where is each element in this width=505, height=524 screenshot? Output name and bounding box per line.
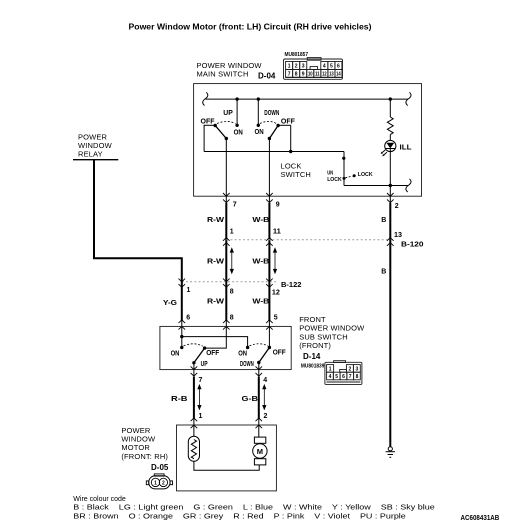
wire: pin 2 to motor top: [258, 425, 260, 437]
power window main switch box D-04: [194, 84, 422, 197]
svg-text:1: 1: [187, 287, 191, 294]
wire: bus to DOWN ON contact: [257, 99, 259, 125]
node: ON contact left: [180, 346, 183, 349]
svg-text:Y-G: Y-G: [163, 300, 178, 307]
svg-text:7: 7: [288, 72, 291, 78]
pin numbers of D-05 icon: [154, 480, 165, 486]
node: bus junction for UP switch: [235, 97, 238, 100]
svg-text:2: 2: [395, 203, 399, 210]
svg-text:8: 8: [230, 289, 234, 296]
wire: pivot to pin 4 exit: [258, 363, 260, 370]
wire: pivot of DOWN switch down to pin 9: [268, 139, 270, 197]
svg-text:4: 4: [323, 64, 326, 70]
svg-text:8: 8: [230, 315, 234, 322]
svg-text:9: 9: [276, 202, 280, 209]
svg-text:OFF: OFF: [273, 349, 287, 356]
illumination rays: [382, 150, 385, 153]
svg-text:B-120: B-120: [401, 242, 424, 249]
connector B-120 chevrons on W-B: [266, 238, 273, 246]
svg-text:2: 2: [162, 480, 165, 486]
svg-text:6: 6: [186, 315, 190, 322]
power window motor box D-05: [177, 425, 277, 491]
wire: W-B from main switch pin 9 to sub switch pin 5: [268, 196, 270, 203]
label: FRONT POWER WINDOW SUB SWITCH (FRONT): [299, 315, 365, 350]
connector B-120 chevrons on B: [387, 238, 394, 246]
wire: G-B from sub switch pin 4 to motor pin 2: [258, 370, 260, 377]
break mark right of top bus: [406, 92, 411, 105]
svg-text:3: 3: [356, 366, 359, 372]
double arrow on R-B wire: [198, 385, 201, 409]
connector exit chevrons main switch pin 9: [266, 193, 273, 203]
circuit breaker (motor): [188, 436, 199, 461]
svg-text:W-B: W-B: [252, 217, 269, 224]
svg-text:B-122: B-122: [281, 282, 302, 289]
svg-text:R-W: R-W: [207, 299, 224, 306]
switch blade DOWN: [276, 124, 279, 127]
svg-text:ILL: ILL: [400, 144, 413, 151]
motor M: [253, 437, 267, 465]
svg-text:1: 1: [154, 480, 157, 486]
node: rail junction: [289, 150, 292, 153]
wire: pin 5 drop to blade tip: [268, 326, 270, 347]
sub switch DOWN side: [238, 326, 286, 369]
svg-text:W-B: W-B: [252, 299, 269, 306]
svg-text:ON: ON: [171, 350, 180, 357]
svg-text:ON: ON: [234, 130, 243, 137]
wire: R-W from main switch pin 7 to sub switch pin 8: [225, 196, 227, 203]
wire: pivot of UP switch down to pin 7: [225, 139, 227, 197]
connector B-122 chevrons on W-B: [266, 279, 273, 288]
front power window sub switch box D-14: [160, 326, 291, 369]
svg-text:R-B: R-B: [171, 396, 188, 403]
connector entry chevrons motor pin 1: [191, 418, 198, 428]
node: ON contact right: [246, 346, 249, 349]
svg-text:2: 2: [295, 64, 298, 70]
svg-text:6: 6: [342, 374, 345, 380]
wire: main switch top bus: [206, 98, 409, 100]
svg-text:SWITCH: SWITCH: [281, 170, 311, 179]
intermediate connector B-122 dashed line: [182, 281, 277, 283]
svg-text:1: 1: [230, 229, 234, 236]
svg-text:D-05: D-05: [151, 463, 169, 472]
svg-text:13: 13: [394, 232, 402, 239]
pin numbers of D-14 table: [329, 366, 359, 380]
double arrow on G-B wire: [263, 385, 266, 409]
svg-text:UP: UP: [223, 110, 233, 117]
node: bottom bus junction: [389, 184, 392, 187]
svg-text:UP: UP: [201, 361, 208, 368]
wire: pin 6 into sub switch: [181, 326, 183, 347]
label: POWER WINDOW MOTOR (FRONT: RH): [121, 426, 168, 461]
break mark right of bottom bus: [406, 179, 411, 192]
svg-text:MU801857: MU801857: [285, 52, 309, 58]
svg-text:5: 5: [330, 64, 333, 70]
svg-text:(FRONT: RH): (FRONT: RH): [121, 452, 168, 461]
wire: B from main switch pin 2 to ground: [389, 196, 391, 203]
svg-text:DOWN: DOWN: [264, 110, 279, 117]
svg-text:B : Black LG : Light green: B : Black LG : Light green G : Green L :…: [73, 504, 435, 511]
dashed throw arc DOWN (sub): [249, 344, 268, 346]
svg-text:8: 8: [356, 374, 359, 380]
switch blade UP (sub): [194, 348, 205, 363]
svg-text:POWER: POWER: [78, 132, 108, 141]
svg-text:3: 3: [302, 64, 305, 70]
connector entry chevrons sub switch pin 6: [179, 320, 186, 330]
svg-text:5: 5: [274, 315, 278, 322]
connector exit chevrons main switch pin 2: [387, 193, 394, 203]
svg-text:12: 12: [272, 290, 280, 297]
label: POWER WINDOW RELAY: [78, 132, 113, 158]
svg-text:Power Window Motor (front: LH): Power Window Motor (front: LH) Circuit (…: [129, 23, 372, 32]
svg-text:SUB SWITCH: SUB SWITCH: [299, 332, 348, 341]
wire: bus to UP ON contact: [236, 99, 238, 125]
svg-text:R-W: R-W: [207, 259, 224, 266]
svg-text:1: 1: [288, 64, 291, 70]
UP switch of main switch: [201, 99, 243, 140]
svg-text:B: B: [381, 217, 386, 224]
svg-text:ON: ON: [238, 350, 247, 357]
svg-text:MU801839: MU801839: [301, 364, 325, 370]
svg-text:4: 4: [329, 374, 332, 380]
wire: rail corner down to lock common: [343, 152, 345, 186]
wire: left OFF drop: [203, 125, 205, 152]
svg-text:7: 7: [349, 374, 352, 380]
svg-text:B: B: [381, 269, 386, 276]
sub switch UP side: [171, 326, 227, 369]
wire: pin 8 drop to blade tip: [205, 326, 227, 348]
double arrow on W-B wire: [273, 248, 276, 273]
svg-text:1: 1: [329, 366, 332, 372]
svg-text:11: 11: [315, 72, 320, 78]
wire: R-B from sub switch pin 7 to motor pin 1: [193, 370, 195, 377]
intermediate connector B-120 dashed line: [226, 239, 390, 241]
svg-text:D-14: D-14: [303, 352, 321, 361]
wire: UP OFF contact stub: [204, 124, 215, 126]
connector exit chevrons main switch pin 7: [223, 193, 230, 203]
power window relay terminal bar: [73, 159, 118, 161]
svg-text:M: M: [257, 447, 263, 456]
lamp ILL: [381, 140, 413, 156]
svg-text:OFF: OFF: [201, 119, 216, 126]
node: bus junction for ILL branch: [389, 97, 392, 100]
switch blade DOWN (sub): [259, 348, 270, 363]
svg-text:WINDOW: WINDOW: [121, 435, 156, 444]
dashed throw arc DOWN switch: [260, 121, 277, 123]
wire: lamp to bottom bus: [389, 152, 391, 197]
wire: pivot to pin 7 exit: [193, 363, 195, 370]
svg-text:(FRONT): (FRONT): [299, 341, 331, 350]
label: POWER WINDOW MAIN SWITCH: [197, 61, 263, 79]
svg-text:MOTOR: MOTOR: [121, 443, 150, 452]
wire: pin 1 to circuit breaker: [193, 425, 195, 436]
dashed throw to LOCK contact: [346, 176, 353, 178]
legend: wire colour code: [73, 496, 435, 521]
svg-text:RELAY: RELAY: [78, 150, 103, 159]
break mark left of top bus: [203, 92, 208, 105]
connector exit chevrons sub switch pin 4: [256, 366, 263, 376]
svg-text:UN: UN: [327, 171, 333, 177]
wire: sub switch internal bus: [182, 337, 248, 348]
svg-text:DOWN: DOWN: [240, 361, 254, 368]
lock switch blade contact (UNLOCK position): [343, 177, 346, 180]
lock switch: [327, 152, 372, 186]
svg-text:ON: ON: [255, 129, 264, 136]
svg-text:10: 10: [308, 72, 313, 78]
connector face icon D-05: [146, 474, 172, 489]
svg-text:6: 6: [337, 64, 340, 70]
dashed throw arc UP (sub): [184, 344, 203, 346]
svg-text:12: 12: [322, 72, 327, 78]
svg-text:MAIN SWITCH: MAIN SWITCH: [197, 70, 249, 79]
wire: breaker to motor bottom: [194, 461, 259, 470]
ground symbol: [386, 447, 395, 458]
switch blade UP: [215, 126, 226, 139]
svg-text:14: 14: [336, 72, 341, 78]
svg-text:G-B: G-B: [242, 396, 259, 403]
svg-text:POWER: POWER: [121, 426, 151, 435]
svg-text:5: 5: [335, 374, 338, 380]
pin numbers of D-04 table: [288, 64, 341, 78]
svg-text:POWER WINDOW: POWER WINDOW: [299, 324, 365, 333]
svg-text:13: 13: [329, 72, 334, 78]
double arrow on R-W wire: [230, 248, 233, 273]
node: bus junction for DOWN switch: [257, 97, 260, 100]
connector exit chevrons sub switch pin 7: [191, 366, 198, 376]
connector entry chevrons sub switch pin 8: [223, 320, 230, 330]
connector B-122 chevrons on Y-G: [179, 279, 186, 288]
DOWN switch of main switch: [255, 99, 296, 151]
connector pin-layout table D-04: [284, 58, 343, 80]
svg-text:LOCK: LOCK: [327, 177, 342, 183]
connector entry chevrons sub switch pin 5: [266, 320, 273, 330]
svg-text:4: 4: [263, 377, 267, 384]
resistor (ILL dimming): [387, 99, 393, 140]
connector entry chevrons motor pin 2: [256, 418, 263, 428]
wire: DOWN OFF contact to right drop: [278, 124, 291, 126]
svg-text:9: 9: [302, 72, 305, 78]
svg-text:2: 2: [349, 366, 352, 372]
connector B-122 chevrons on R-W: [223, 279, 230, 288]
svg-text:8: 8: [295, 72, 298, 78]
connector B-120 chevrons on R-W: [223, 238, 230, 246]
svg-text:1: 1: [199, 413, 203, 420]
svg-text:7: 7: [233, 202, 237, 209]
wire: relay feed Y-G from power window relay: [94, 160, 182, 321]
svg-text:D-04: D-04: [258, 72, 276, 81]
wire: switch common bottom rail: [204, 151, 344, 153]
label: LOCK SWITCH: [281, 162, 311, 180]
svg-text:OFF: OFF: [281, 119, 296, 126]
svg-text:Wire colour code: Wire colour code: [73, 496, 126, 503]
node: sub switch feed junction: [180, 335, 183, 338]
svg-text:LOCK: LOCK: [358, 172, 373, 178]
svg-text:11: 11: [273, 229, 281, 236]
wire: lock switch bottom bus: [344, 185, 408, 187]
svg-text:BR : Brown O : Orange GR: BR : Brown O : Orange GR : Grey R : Red …: [73, 514, 406, 521]
svg-text:R-W: R-W: [207, 217, 224, 224]
svg-text:W-B: W-B: [252, 259, 269, 266]
svg-text:2: 2: [264, 413, 268, 420]
dashed throw arc UP switch: [217, 121, 236, 123]
svg-text:AC608431AB: AC608431AB: [461, 515, 500, 522]
svg-text:7: 7: [199, 377, 203, 384]
connector pin-layout table D-14: [325, 361, 362, 385]
svg-text:OFF: OFF: [206, 350, 220, 357]
